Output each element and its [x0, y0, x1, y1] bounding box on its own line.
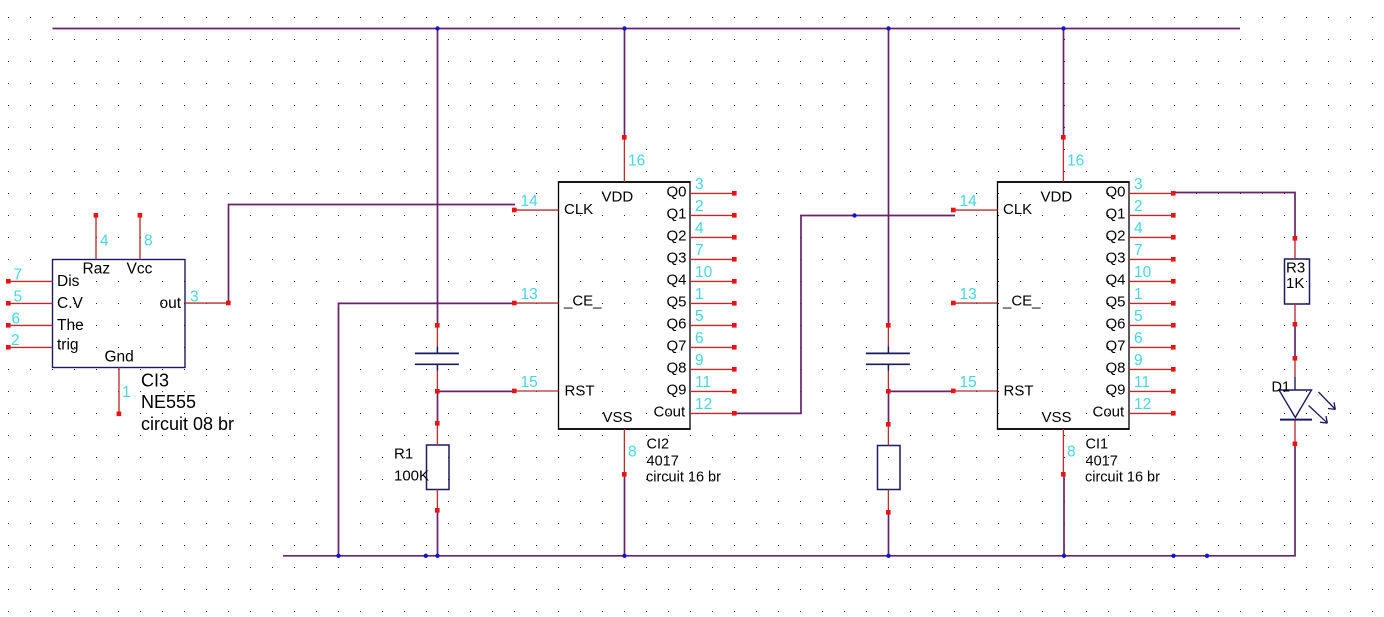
svg-text:100K: 100K: [394, 468, 429, 485]
CI1 pin 1 (Q5) stub: [1129, 286, 1176, 305]
svg-text:3: 3: [190, 289, 199, 306]
wire CI2 VSS to ground rail: [624, 474, 626, 555]
svg-text:CLK: CLK: [1003, 201, 1032, 218]
CI3 pin 1 (Gnd) stub: [117, 368, 131, 417]
svg-text:Q6: Q6: [667, 316, 687, 333]
svg-text:Raz: Raz: [83, 261, 111, 278]
CI3 value labels: [141, 371, 234, 435]
wire CI3 out to CI2 CLK: [229, 205, 516, 304]
junction: [435, 26, 439, 30]
wire riser C2 branch to top rail: [888, 28, 890, 325]
svg-text:2: 2: [1134, 198, 1143, 215]
svg-text:1: 1: [122, 384, 131, 401]
CI1 pin 10 (Q4) stub: [1129, 264, 1176, 283]
svg-text:VSS: VSS: [1042, 409, 1072, 426]
svg-text:2: 2: [11, 332, 20, 349]
CI1 pin 11 (Q9) stub: [1129, 374, 1176, 393]
svg-text:circuit 16 br: circuit 16 br: [1085, 470, 1160, 486]
wire bottom ground rail: [283, 555, 1296, 557]
svg-text:Q8: Q8: [667, 360, 687, 377]
resistor R3 1K: [1285, 236, 1310, 327]
svg-text:6: 6: [1134, 330, 1143, 347]
CI1 pin 8 (VSS) stub: [1061, 429, 1076, 477]
timer IC CI3 NE555 body: [53, 260, 186, 368]
CI3 pin 4 (Raz) stub: [94, 213, 109, 260]
wire C2 to CI1 RST: [888, 390, 954, 392]
CI2 pin 5 (Q6) stub: [690, 308, 737, 327]
svg-text:13: 13: [521, 286, 538, 303]
svg-text:VSS: VSS: [603, 409, 633, 426]
svg-text:circuit 16 br: circuit 16 br: [646, 470, 721, 486]
svg-text:Q4: Q4: [1106, 272, 1126, 289]
CI1 pin 7 (Q3) stub: [1129, 242, 1176, 261]
counter IC CI2 4017 body: [558, 182, 691, 429]
wire CI2 VDD to top rail: [624, 28, 626, 137]
resistor R1 100K: [427, 421, 450, 513]
svg-text:6: 6: [695, 330, 704, 347]
CI2 pin 16 (VDD) stub: [622, 135, 645, 182]
svg-text:RST: RST: [565, 383, 595, 400]
CI2 pin 3 (Q0) stub: [690, 176, 737, 195]
wire C2 to R2: [888, 391, 890, 424]
svg-text:Q2: Q2: [1106, 228, 1126, 245]
svg-text:1: 1: [1134, 286, 1143, 303]
svg-text:Q4: Q4: [667, 272, 687, 289]
junction: [435, 554, 439, 558]
svg-text:12: 12: [695, 396, 712, 413]
wire CI1 Q0 to R3: [1174, 193, 1295, 239]
R3 value labels: [1286, 260, 1305, 293]
CI3 pin 3 (out) stub: [185, 289, 231, 306]
CI3 pin 2 stub: [6, 332, 53, 350]
svg-text:7: 7: [695, 242, 704, 259]
junction: [336, 554, 340, 558]
svg-text:4: 4: [1134, 220, 1143, 237]
svg-text:_CE_: _CE_: [1002, 293, 1041, 310]
svg-text:VDD: VDD: [1041, 189, 1073, 206]
svg-text:Q7: Q7: [1106, 338, 1126, 355]
wire R1 to ground rail: [437, 510, 439, 555]
CI2 pin 6 (Q7) stub: [690, 330, 737, 349]
svg-text:Q5: Q5: [1106, 294, 1126, 311]
svg-text:12: 12: [1134, 396, 1151, 413]
svg-text:5: 5: [1134, 308, 1143, 325]
CI1 pin 9 (Q8) stub: [1129, 352, 1176, 371]
CI3 pin 7 stub: [6, 267, 53, 284]
CI2 pin 4 (Q2) stub: [690, 220, 737, 239]
svg-text:Q7: Q7: [667, 338, 687, 355]
svg-text:1: 1: [695, 286, 704, 303]
svg-text:Vcc: Vcc: [127, 261, 153, 278]
D1 light emission arrows: [1309, 392, 1336, 423]
CI1 pin 13 stub: [951, 286, 998, 305]
CI2 pin 8 (VSS) stub: [622, 429, 637, 477]
svg-text:4017: 4017: [647, 454, 679, 470]
CI1 pin 6 (Q7) stub: [1129, 330, 1176, 349]
counter IC CI1 4017 body: [997, 182, 1130, 429]
junction: [1171, 554, 1175, 558]
svg-text:Q6: Q6: [1106, 316, 1126, 333]
svg-text:8: 8: [144, 233, 153, 250]
wire CI1 VSS to ground rail: [1063, 474, 1065, 555]
svg-text:R1: R1: [394, 446, 413, 463]
wire CI2 Cout to CI1 CLK: [734, 216, 955, 414]
svg-text:Dis: Dis: [57, 273, 80, 290]
CI2 pin 1 (Q5) stub: [690, 286, 737, 305]
wire top supply rail: [53, 28, 1241, 30]
svg-text:The: The: [57, 317, 84, 334]
svg-text:5: 5: [14, 289, 23, 306]
CI2 pin 10 (Q4) stub: [690, 264, 737, 283]
CI3 pin 5 stub: [6, 289, 53, 306]
junction: [1062, 554, 1066, 558]
CI1 pin 16 (VDD) stub: [1061, 135, 1084, 182]
svg-text:16: 16: [628, 153, 645, 170]
wire CI2 _CE_ to ground rail: [339, 303, 515, 555]
CI1 value labels: [1085, 437, 1160, 486]
wire C1 to R1: [437, 391, 439, 423]
svg-text:8: 8: [628, 444, 637, 461]
svg-text:3: 3: [695, 176, 704, 193]
CI2 pin 9 (Q8) stub: [690, 352, 737, 371]
CI3 pin 6 stub: [6, 311, 53, 328]
svg-text:CLK: CLK: [564, 201, 593, 218]
svg-text:Q0: Q0: [1106, 184, 1126, 201]
svg-text:7: 7: [1134, 242, 1143, 259]
svg-text:Q3: Q3: [667, 250, 687, 267]
svg-text:Cout: Cout: [654, 404, 687, 421]
junction: [1061, 26, 1065, 30]
svg-text:R3: R3: [1286, 260, 1305, 277]
svg-text:2: 2: [695, 198, 704, 215]
svg-text:_CE_: _CE_: [563, 293, 602, 310]
junction: [1205, 554, 1209, 558]
svg-text:CI1: CI1: [1086, 437, 1109, 453]
svg-text:8: 8: [1067, 444, 1076, 461]
svg-text:Q9: Q9: [667, 382, 687, 399]
CI2 pin 2 (Q1) stub: [690, 198, 737, 217]
wire D1 to ground rail: [1294, 444, 1296, 556]
svg-text:Q1: Q1: [1106, 206, 1126, 223]
CI1 pin 3 (Q0) stub: [1129, 176, 1176, 195]
svg-text:Q2: Q2: [667, 228, 687, 245]
capacitor C2: [866, 323, 910, 394]
junction: [852, 213, 856, 217]
svg-text:4017: 4017: [1086, 454, 1118, 470]
capacitor C1: [415, 323, 459, 394]
svg-text:D1: D1: [1272, 380, 1291, 396]
svg-text:11: 11: [1134, 374, 1150, 391]
svg-text:Gnd: Gnd: [105, 349, 134, 366]
resistor R2: [878, 422, 901, 515]
svg-text:RST: RST: [1004, 383, 1034, 400]
CI2 pin 14 stub: [512, 193, 559, 212]
svg-text:CI2: CI2: [647, 437, 670, 453]
svg-text:circuit 08 br: circuit 08 br: [141, 414, 234, 434]
CI1 pin 14 stub: [951, 193, 998, 212]
svg-text:trig: trig: [57, 337, 79, 354]
svg-text:Cout: Cout: [1093, 404, 1126, 421]
CI1 pin 5 (Q6) stub: [1129, 308, 1176, 327]
svg-text:Q5: Q5: [667, 294, 687, 311]
wire R2 to ground rail: [888, 512, 890, 555]
svg-text:Q3: Q3: [1106, 250, 1126, 267]
CI3 pin 8 (Vcc) stub: [138, 213, 153, 260]
LED D1: [1272, 356, 1313, 446]
svg-text:C.V: C.V: [57, 295, 84, 312]
svg-text:11: 11: [695, 374, 711, 391]
svg-text:10: 10: [1134, 264, 1152, 281]
junction: [424, 554, 428, 558]
svg-text:14: 14: [521, 193, 539, 210]
CI2 value labels: [646, 437, 721, 486]
wire riser C1 branch to top rail: [437, 28, 439, 325]
svg-text:9: 9: [1134, 352, 1143, 369]
svg-text:14: 14: [960, 193, 978, 210]
wire R3 to D1: [1294, 324, 1296, 358]
junction: [622, 554, 626, 558]
svg-text:VDD: VDD: [602, 189, 634, 206]
svg-text:4: 4: [100, 233, 109, 250]
svg-text:NE555: NE555: [141, 392, 196, 412]
CI1 pin 2 (Q1) stub: [1129, 198, 1176, 217]
svg-text:Q1: Q1: [667, 206, 687, 223]
CI2 pin 12 (Cout) stub: [690, 396, 737, 415]
svg-text:9: 9: [695, 352, 704, 369]
svg-text:6: 6: [12, 311, 21, 328]
junction: [886, 26, 890, 30]
svg-text:CI3: CI3: [141, 371, 169, 391]
svg-text:15: 15: [521, 374, 538, 391]
svg-text:4: 4: [695, 220, 704, 237]
svg-text:10: 10: [695, 264, 713, 281]
wire C1 to CI2 RST: [437, 390, 514, 392]
CI2 pin 13 stub: [512, 286, 559, 305]
svg-text:7: 7: [14, 267, 23, 284]
CI1 pin 4 (Q2) stub: [1129, 220, 1176, 239]
svg-text:out: out: [160, 295, 182, 312]
junction: [886, 554, 890, 558]
R1 value labels: [394, 446, 429, 485]
svg-text:16: 16: [1067, 153, 1084, 170]
CI2 pin 15 stub: [512, 374, 559, 393]
svg-text:13: 13: [960, 286, 977, 303]
svg-text:3: 3: [1134, 176, 1143, 193]
CI1 pin 12 (Cout) stub: [1129, 396, 1176, 415]
CI2 pin 7 (Q3) stub: [690, 242, 737, 261]
wire CI1 VDD to top rail: [1063, 28, 1065, 137]
svg-text:1K: 1K: [1286, 275, 1304, 292]
svg-text:15: 15: [960, 374, 977, 391]
svg-text:Q0: Q0: [667, 184, 687, 201]
svg-text:5: 5: [695, 308, 704, 325]
CI1 pin 15 stub: [951, 374, 998, 393]
junction: [622, 26, 626, 30]
svg-text:Q8: Q8: [1106, 360, 1126, 377]
svg-text:Q9: Q9: [1106, 382, 1126, 399]
CI2 pin 11 (Q9) stub: [690, 374, 737, 393]
